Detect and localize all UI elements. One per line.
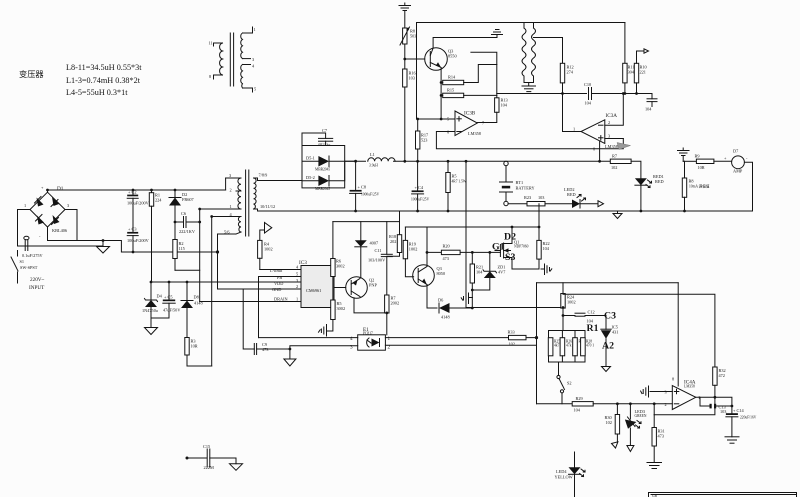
wire pin4 stub (212, 216, 236, 218)
resistor R14 (441, 65, 497, 85)
wire VDD rail (151, 281, 301, 283)
svg-text:1: 1 (230, 204, 232, 209)
capacitor C13 (700, 397, 732, 414)
wire R23 down to drain node (538, 204, 540, 241)
svg-text:222/1KV: 222/1KV (179, 229, 196, 234)
svg-text:8: 8 (593, 147, 595, 152)
svg-text:DRAIN: DRAIN (274, 297, 288, 302)
svg-text:11: 11 (209, 41, 213, 46)
svg-text:3002: 3002 (337, 306, 346, 311)
svg-text:FR607: FR607 (182, 197, 195, 202)
svg-text:1: 1 (296, 297, 298, 302)
LED LED3 (625, 404, 647, 446)
svg-text:104: 104 (543, 246, 550, 251)
svg-text:100uF/200V: 100uF/200V (127, 201, 150, 206)
svg-text:1000uF/25V: 1000uF/25V (361, 193, 380, 197)
svg-text:D5-2: D5-2 (306, 175, 315, 180)
svg-text:R1: R1 (587, 323, 599, 334)
svg-text:115: 115 (179, 246, 185, 251)
svg-text:1002: 1002 (567, 300, 576, 305)
svg-text:3: 3 (67, 203, 69, 208)
svg-text:IC3: IC3 (299, 260, 307, 266)
resistor R23 (524, 195, 545, 206)
svg-text:202: 202 (390, 239, 396, 244)
wire IC3A output (563, 94, 582, 132)
capacitor C11 (368, 222, 392, 295)
ground C14 (725, 437, 739, 443)
svg-text:1: 1 (254, 27, 256, 32)
wire degauss join (524, 83, 534, 87)
svg-text:3.9uH: 3.9uH (369, 164, 378, 168)
ground primary (97, 241, 110, 254)
wire pin1 to drain (200, 208, 236, 210)
wire snubber bottom (175, 269, 200, 271)
wire R7 to RED1 (631, 161, 641, 178)
wire IC3B plus input (417, 118, 456, 120)
svg-text:4R7 1.5W: 4R7 1.5W (452, 180, 467, 184)
resistor R31 (652, 404, 665, 463)
wire AC lower rail (18, 245, 104, 247)
svg-text:LM358: LM358 (684, 385, 695, 389)
IC IC3 (270, 260, 334, 308)
svg-text:103: 103 (720, 409, 726, 414)
svg-text:102: 102 (509, 342, 515, 347)
chassis ground IC3 (319, 325, 327, 337)
wire output rail top (345, 160, 611, 162)
svg-text:4V7: 4V7 (498, 269, 506, 274)
svg-text:R20: R20 (443, 244, 450, 249)
svg-text:变压器: 变压器 (19, 69, 44, 79)
diode D8 (181, 282, 203, 338)
svg-text:LED4: LED4 (556, 469, 567, 474)
svg-text:R5: R5 (452, 174, 457, 179)
ground R31 (647, 463, 662, 469)
wire sense vertical (465, 161, 467, 307)
capacitor C6 (175, 211, 200, 234)
wire opto pin2 out (385, 344, 536, 346)
wire comp line (497, 93, 587, 95)
wire comparator input line (593, 403, 672, 405)
wire aux feed line (333, 221, 400, 223)
transformer symbol T-detail primary winding (209, 41, 223, 80)
chassis ground collector (492, 30, 503, 38)
wire feedback box left (536, 283, 538, 404)
capacitor C1 (22, 236, 44, 258)
capacitor C2 (127, 190, 150, 233)
svg-text:KBL406: KBL406 (52, 228, 68, 233)
resistor R25 (548, 338, 560, 356)
svg-text:BATTERY: BATTERY (516, 186, 535, 191)
resistor R9 (683, 154, 714, 171)
svg-text:L1: L1 (370, 152, 375, 157)
svg-text:523: 523 (421, 138, 427, 143)
meter D7 (714, 149, 748, 174)
svg-text:3: 3 (229, 173, 231, 178)
wire IC3 pin4 Llimit (260, 269, 301, 271)
LED RED1 (635, 174, 664, 211)
svg-text:220V~: 220V~ (30, 277, 45, 283)
wire gate drive row (427, 251, 500, 253)
wire R23 to LED2 (545, 203, 572, 205)
svg-text:D1: D1 (57, 186, 64, 192)
svg-text:4: 4 (350, 336, 353, 342)
svg-text:CM6961: CM6961 (306, 288, 321, 293)
svg-text:431: 431 (612, 330, 618, 335)
svg-text:+ C14: + C14 (733, 408, 745, 413)
resistor R15 (441, 88, 497, 98)
transformer symbol T-detail secondary windings (241, 27, 256, 92)
resistor R3 (185, 338, 212, 367)
resistor R4 (258, 240, 273, 269)
svg-text:L1-3=0.74mH 0.38*2t: L1-3=0.74mH 0.38*2t (66, 76, 141, 85)
svg-text:472: 472 (719, 373, 725, 378)
svg-text:1000uF/25V: 1000uF/25V (411, 198, 430, 202)
svg-text:8050: 8050 (437, 271, 446, 276)
svg-text:102: 102 (611, 165, 617, 170)
svg-text:681/1kv: 681/1kv (319, 143, 331, 147)
transformer symbol T-detail core (230, 33, 233, 86)
resistor R8b shunt (682, 161, 710, 211)
resistor R26 (560, 331, 572, 363)
svg-text:A2: A2 (602, 341, 614, 352)
flag R10 adj (637, 49, 649, 58)
svg-text:47uF/50V: 47uF/50V (163, 308, 181, 313)
wire primary return rail (48, 241, 218, 253)
chassis ground top left (399, 3, 411, 27)
trimmer R8 (400, 27, 416, 69)
svg-text:473: 473 (262, 347, 268, 352)
svg-text:503: 503 (410, 34, 416, 39)
svg-text:S1: S1 (20, 259, 25, 264)
svg-text:10mA 满偏值: 10mA 满偏值 (689, 184, 710, 189)
resistor R27 (573, 331, 585, 363)
resistor R7 (610, 154, 631, 171)
svg-text:2002: 2002 (391, 301, 400, 306)
wire 789 to rectifier (258, 178, 303, 181)
svg-text:5/6: 5/6 (224, 230, 230, 235)
ground tap rail (613, 211, 622, 219)
diode D6 (438, 298, 472, 320)
svg-text:0.1uF/275V: 0.1uF/275V (22, 253, 44, 258)
wire battery row (508, 203, 527, 205)
svg-text:VDD: VDD (274, 281, 283, 286)
resistor R28 (581, 338, 595, 356)
opamp IC4A (665, 377, 701, 410)
optocoupler E1 (350, 327, 391, 351)
svg-text:YELLOW: YELLOW (555, 475, 574, 480)
resistor R13 (471, 52, 508, 112)
svg-text:224: 224 (155, 198, 162, 203)
wire feedback under (654, 397, 715, 414)
svg-text:D7: D7 (733, 149, 739, 154)
svg-text:C7: C7 (322, 128, 328, 133)
svg-text:D6: D6 (438, 298, 444, 303)
svg-text:221: 221 (640, 70, 646, 75)
svg-text:PC817: PC817 (363, 332, 373, 336)
svg-text:GND: GND (272, 287, 281, 292)
wire Q3b collector (426, 227, 428, 267)
ground VDD (145, 318, 158, 335)
svg-text:7/8/9: 7/8/9 (259, 173, 268, 178)
resistor R5 (446, 161, 467, 211)
wire IC3 pin5 FB (259, 277, 302, 338)
chassis ground degauss (522, 86, 536, 92)
svg-text:LM358: LM358 (605, 144, 618, 149)
svg-text:R8: R8 (689, 179, 694, 184)
svg-text:G1: G1 (492, 242, 505, 253)
switch S2 (557, 362, 572, 404)
inductor L1 (366, 152, 395, 168)
chassis ground R21 (461, 293, 472, 304)
capacitor C7 (302, 128, 333, 147)
wire Q3 emitter (440, 68, 442, 120)
bridge rectifier D1 (24, 185, 69, 239)
capacitor C4 (411, 161, 430, 211)
resistor R20 (441, 244, 460, 261)
wire IC3A minus (605, 94, 624, 126)
transformer T1 aux winding (224, 212, 241, 235)
svg-text:3: 3 (608, 134, 610, 139)
svg-text:104: 104 (574, 408, 581, 413)
svg-text:SW-SPST: SW-SPST (20, 265, 38, 270)
resistor R17 (416, 119, 430, 161)
svg-text:+ C3: + C3 (128, 227, 137, 232)
svg-text:1N4750a: 1N4750a (142, 308, 158, 313)
svg-text:R14: R14 (448, 75, 456, 80)
flag output sense (260, 223, 272, 241)
svg-text:GREEN: GREEN (635, 414, 647, 418)
svg-text:473: 473 (443, 256, 449, 261)
capacitor C10 (584, 82, 652, 106)
wire IC3A plus (605, 138, 624, 140)
wire IC3A supply (599, 141, 601, 161)
svg-text:C11: C11 (375, 248, 382, 253)
wire secondary return rail (258, 209, 753, 211)
wire Q2 base column (332, 277, 334, 301)
svg-text:S2: S2 (567, 381, 572, 386)
svg-text:S3: S3 (505, 252, 515, 263)
wire Q2 collector (354, 298, 387, 313)
svg-text:473: 473 (658, 434, 664, 439)
svg-text:C12: C12 (588, 310, 595, 315)
wire FB to opto pin4 (259, 337, 358, 339)
svg-text:103: 103 (409, 76, 415, 81)
svg-text:1002: 1002 (409, 247, 418, 252)
wire gnd jog to IC (218, 234, 302, 289)
svg-text:BT1: BT1 (516, 180, 524, 185)
wire pin5-6 stub (218, 233, 237, 235)
capacitor C9 (243, 289, 290, 355)
svg-text:IC3A: IC3A (606, 113, 618, 119)
svg-text:R29: R29 (576, 396, 583, 401)
gray arrow LM358 (617, 143, 631, 150)
svg-text:104: 104 (476, 269, 483, 274)
resistor R11 (623, 23, 635, 94)
svg-text:+ C4: + C4 (415, 185, 424, 190)
svg-text:D8: D8 (194, 295, 199, 300)
MOSFET Q1 (492, 227, 529, 269)
resistor R18 (387, 211, 402, 256)
svg-text:LM358: LM358 (468, 131, 481, 136)
svg-text:2: 2 (665, 402, 667, 407)
dual diode D5 package (302, 146, 356, 192)
svg-text:10/11/12: 10/11/12 (260, 204, 275, 209)
wire HV+ rail (48, 189, 226, 191)
degauss coil L3 (532, 23, 536, 83)
svg-text:220uF/16V: 220uF/16V (740, 416, 757, 420)
flag charge indicator (598, 201, 604, 207)
wire R24 top to R32 (563, 294, 715, 367)
transistor Q3 (405, 48, 457, 71)
svg-text:470 1: 470 1 (586, 344, 594, 348)
svg-text:AMP: AMP (733, 169, 743, 174)
resistor R6 (331, 222, 345, 277)
svg-text:+ C5: + C5 (164, 294, 173, 299)
capacitor C12 (563, 310, 606, 324)
svg-text:1: 1 (24, 203, 26, 208)
wire bridge right leg (65, 210, 77, 241)
svg-text:4k7: 4k7 (554, 344, 560, 348)
svg-text:RED: RED (655, 179, 664, 184)
LED LED4 (555, 452, 586, 497)
wire IC3 pin1 drain lead (200, 301, 301, 303)
opamp IC3A (573, 113, 618, 152)
ground opto (284, 359, 296, 366)
resistor R32 (713, 367, 726, 397)
wire IC3B output (477, 112, 497, 122)
ground arrow R30 (612, 442, 618, 448)
wire drain net vertical (199, 209, 201, 302)
svg-text:R9: R9 (695, 154, 700, 159)
svg-text:274: 274 (567, 70, 574, 75)
wire Q3 collector (433, 38, 497, 49)
wire aux pin4 vertical (211, 217, 213, 367)
wire feedback box right (677, 283, 679, 386)
svg-text:L-limit: L-limit (270, 268, 283, 273)
svg-text:8550: 8550 (448, 54, 457, 59)
ground arrow LED3 (627, 446, 634, 452)
svg-text:100uF/200V: 100uF/200V (127, 238, 150, 243)
ground IC5 (602, 367, 611, 372)
svg-text:10R: 10R (191, 344, 198, 349)
resistor R10 (634, 58, 646, 94)
chassis ground meter (678, 148, 690, 161)
wire opto pin1 out (385, 337, 536, 339)
svg-text:1002: 1002 (264, 247, 273, 252)
opamp IC3B (447, 111, 485, 137)
switch S1 (11, 251, 38, 284)
resistor R19 (403, 227, 417, 277)
wire top loop left vertical (416, 23, 418, 120)
capacitor C3 (127, 227, 150, 252)
svg-text:8: 8 (672, 377, 674, 382)
resistor R22 (512, 240, 550, 269)
transistor Q2 (334, 277, 377, 299)
svg-text:4148: 4148 (441, 315, 450, 320)
svg-text:104: 104 (645, 107, 652, 112)
transistor Q3b (413, 265, 445, 287)
chassis ground IC4A plus (641, 386, 673, 397)
capacitor C8 (350, 161, 380, 211)
svg-text:102: 102 (606, 420, 612, 425)
svg-text:PNP: PNP (369, 283, 377, 288)
wire bridge minus lead (47, 227, 49, 241)
wire opto pin3 (290, 346, 358, 359)
divider rails (549, 331, 586, 363)
capacitor C5 (151, 282, 181, 318)
svg-text:5: 5 (296, 272, 298, 277)
wire bridge left leg (18, 210, 31, 247)
svg-text:C10: C10 (584, 82, 591, 87)
resistor R21 (470, 252, 483, 308)
svg-text:NDP7060: NDP7060 (514, 245, 529, 249)
svg-text:3002: 3002 (336, 264, 345, 269)
capacitor C16 small (645, 94, 657, 112)
chassis ground Q1 source (541, 264, 552, 275)
LED LED2 (564, 187, 598, 208)
svg-text:C6: C6 (181, 211, 187, 216)
svg-text:FB: FB (277, 275, 282, 280)
svg-text:4007: 4007 (370, 241, 379, 246)
svg-text:10R: 10R (698, 165, 705, 170)
resistor R5b (327, 300, 345, 331)
svg-text:304: 304 (628, 70, 635, 75)
svg-text:222M: 222M (204, 465, 214, 470)
resistor R1 (149, 190, 162, 282)
wire divider sense line (537, 403, 573, 405)
svg-text:3: 3 (252, 57, 254, 62)
svg-text:2: 2 (296, 284, 298, 289)
svg-text:MBR2045: MBR2045 (315, 168, 330, 172)
svg-text:103/100V: 103/100V (368, 258, 386, 263)
svg-text:RED: RED (567, 192, 576, 197)
svg-text:104: 104 (501, 103, 508, 108)
wire MOSFET drain top (405, 226, 539, 228)
resistor R7b (385, 295, 399, 335)
transformer T1 secondary winding (254, 173, 276, 210)
capacitor C14 (726, 408, 757, 437)
shunt reference IC5 (601, 316, 619, 367)
svg-text:MBR2045: MBR2045 (315, 187, 330, 191)
svg-text:103: 103 (538, 195, 544, 200)
degauss coil L2 (522, 23, 526, 83)
transformer T1 core (246, 170, 249, 236)
svg-text:8: 8 (209, 74, 211, 79)
wire meter return (744, 162, 752, 211)
wire bridge plus lead (47, 190, 49, 192)
wire IC3B minus feedback (436, 132, 623, 149)
capacitor C15 (186, 444, 237, 470)
resistor R2 (173, 240, 185, 271)
svg-text:1: 1 (388, 336, 391, 342)
svg-text:D4: D4 (157, 294, 163, 299)
transformer T1 primary winding (226, 173, 241, 209)
svg-text:1: 1 (573, 127, 575, 132)
resistor R29 (572, 396, 593, 413)
diode D7 (355, 222, 379, 247)
svg-text:R23: R23 (524, 195, 531, 200)
ground C15 (230, 458, 243, 470)
battery BT1 (500, 161, 535, 205)
resistor R30 (605, 404, 620, 443)
svg-text:2: 2 (608, 120, 610, 125)
svg-text:2: 2 (230, 188, 232, 193)
resistor R12 (560, 38, 573, 94)
svg-text:47k: 47k (566, 344, 572, 348)
wire R12 top link (534, 37, 563, 39)
svg-text:5: 5 (254, 87, 256, 92)
wire top loop rail (417, 22, 625, 24)
